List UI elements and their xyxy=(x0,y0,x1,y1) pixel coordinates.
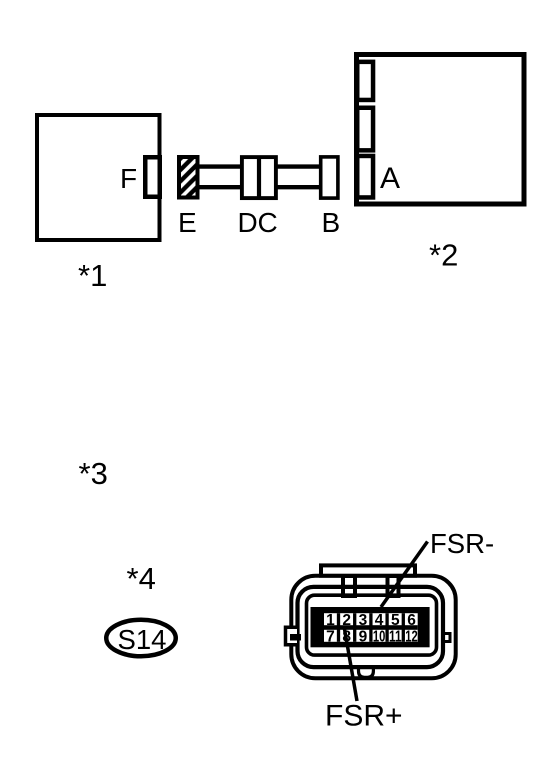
svg-text:C: C xyxy=(258,207,278,238)
svg-text:4: 4 xyxy=(375,612,384,629)
svg-text:S14: S14 xyxy=(118,624,167,655)
svg-text:1: 1 xyxy=(326,612,335,629)
svg-text:5: 5 xyxy=(391,612,400,629)
svg-text:9: 9 xyxy=(359,628,368,645)
svg-text:B: B xyxy=(322,207,341,238)
svg-text:FSR-: FSR- xyxy=(430,528,494,559)
svg-text:7: 7 xyxy=(326,628,335,645)
svg-text:*4: *4 xyxy=(127,561,156,596)
svg-text:*1: *1 xyxy=(78,258,107,293)
svg-text:A: A xyxy=(380,162,400,195)
svg-text:E: E xyxy=(178,207,197,238)
svg-text:6: 6 xyxy=(407,612,416,629)
svg-text:D: D xyxy=(238,207,258,238)
svg-text:*3: *3 xyxy=(79,456,108,491)
svg-text:F: F xyxy=(120,163,137,194)
svg-text:3: 3 xyxy=(359,612,368,629)
svg-text:12: 12 xyxy=(405,628,418,645)
svg-text:FSR+: FSR+ xyxy=(325,700,403,733)
svg-text:*2: *2 xyxy=(429,238,458,273)
svg-text:11: 11 xyxy=(389,628,402,645)
svg-text:10: 10 xyxy=(373,628,386,645)
svg-text:2: 2 xyxy=(342,612,351,629)
